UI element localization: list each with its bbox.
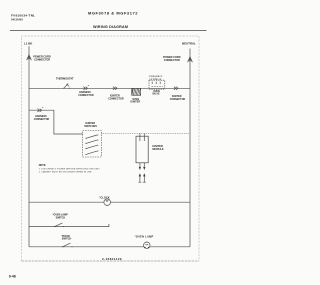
svg-text:WIRING DIAGRAM: WIRING DIAGRAM — [93, 25, 128, 29]
svg-text:CONNECTOR: CONNECTOR — [108, 98, 124, 101]
oven valve (solenoid) — [149, 76, 165, 95]
harness connector (second row) — [38, 109, 42, 112]
igniter connector (top branch) — [113, 87, 117, 90]
power cord connector (right) — [188, 57, 193, 62]
svg-text:THERMOSTAT: THERMOSTAT — [56, 76, 74, 80]
svg-text:04/30/00: 04/30/00 — [11, 18, 23, 22]
svg-text:CONNECTOR: CONNECTOR — [78, 94, 94, 97]
svg-text:CONNECTOR: CONNECTOR — [170, 98, 186, 101]
harness connector (top branch) — [83, 87, 87, 90]
svg-text:*OVEN LAMP: *OVEN LAMP — [135, 234, 154, 238]
svg-text:NEUTRAL: NEUTRAL — [182, 41, 196, 45]
svg-text:11T(R/13: 11T(R/13 — [149, 79, 162, 81]
wire harness branch (second row) — [29, 110, 83, 134]
svg-text:VALVE: VALVE — [152, 93, 160, 96]
svg-text:SWITCH: SWITCH — [56, 217, 66, 220]
svg-text:MODULE: MODULE — [152, 147, 164, 151]
schematic frame border — [22, 36, 200, 261]
wire neutral rail — [189, 49, 191, 247]
svg-text:IGNITER: IGNITER — [130, 101, 140, 104]
wire switches to neutral (dotted) — [101, 133, 190, 135]
svg-text:1. DISCONNECT POWER BEFORE SER: 1. DISCONNECT POWER BEFORE SERVICING THE… — [39, 168, 101, 170]
svg-text:SWITCH: SWITCH — [62, 238, 72, 241]
igniter switch 2 — [85, 143, 86, 144]
wire thermostat branch — [29, 87, 190, 89]
svg-text:L1 BK: L1 BK — [24, 41, 33, 45]
igniter switch 1 — [85, 138, 86, 139]
wire L1 rail — [28, 46, 30, 247]
svg-text:CONNECTOR: CONNECTOR — [34, 118, 50, 121]
header rule — [10, 30, 207, 32]
pin leads with connector arrows — [140, 163, 144, 167]
svg-text:NOTE:: NOTE: — [39, 164, 47, 167]
svg-text:2-16821129: 2-16821129 — [102, 257, 122, 261]
igniter connector (right of valve) — [174, 87, 178, 90]
svg-text:SWITCHES: SWITCHES — [84, 125, 97, 128]
igniter switches assembly — [83, 122, 102, 157]
svg-text:9-46: 9-46 — [9, 274, 16, 278]
note block — [39, 164, 101, 173]
wire clock branch — [29, 201, 190, 203]
svg-text:CONNECTOR: CONNECTOR — [164, 59, 180, 62]
igniter module U1 — [136, 134, 164, 183]
igniter switch 4 — [85, 154, 86, 155]
wire bottom bus — [29, 246, 190, 248]
svg-text:CONNECTOR: CONNECTOR — [34, 59, 50, 62]
power cord connector (left) — [27, 55, 32, 60]
svg-text:MGF3078 & MGF3172: MGF3078 & MGF3172 — [88, 10, 138, 15]
svg-text:FV910034-TNL: FV910034-TNL — [11, 14, 35, 18]
oven igniter (hatched element) — [130, 88, 140, 103]
igniter switch 3 — [85, 148, 86, 149]
svg-text:2. CABINET MUST BE GROUNDED WH: 2. CABINET MUST BE GROUNDED WHEN IN USE. — [39, 171, 93, 174]
wire oven lamp switch branch — [29, 224, 109, 227]
